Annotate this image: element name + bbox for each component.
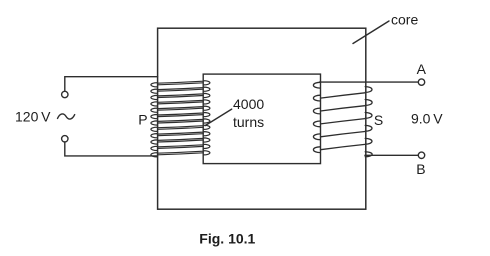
- svg-text:turns: turns: [233, 114, 264, 130]
- leader line to 4000 turns label: [205, 109, 232, 126]
- svg-text:core: core: [391, 12, 418, 28]
- svg-text:120 V: 120 V: [15, 109, 51, 125]
- svg-text:S: S: [374, 112, 383, 128]
- svg-text:P: P: [138, 112, 147, 128]
- wire: secondary bottom to terminal B: [365, 154, 418, 156]
- svg-text:Fig. 10.1: Fig. 10.1: [199, 231, 255, 247]
- terminal (bottom, 120V source): [62, 136, 68, 142]
- secondary coil S (6 turns): [313, 82, 372, 156]
- wire: bottom of source to primary: [65, 142, 158, 156]
- svg-text:4000: 4000: [233, 96, 264, 112]
- AC symbol ~: [58, 114, 75, 119]
- core (laminated core outline): [158, 28, 366, 209]
- terminal A: [418, 79, 424, 85]
- terminal (top, 120V source): [62, 91, 68, 97]
- core window (inner rectangle): [203, 74, 320, 164]
- leader line to core label: [353, 21, 389, 44]
- wire: top of source to primary: [65, 77, 158, 92]
- svg-text:B: B: [416, 161, 425, 177]
- svg-text:A: A: [417, 61, 427, 77]
- primary coil P (12 turns): [151, 81, 210, 157]
- wire: secondary top to terminal A: [320, 81, 419, 83]
- terminal B: [418, 152, 424, 158]
- svg-text:9.0 V: 9.0 V: [411, 111, 443, 127]
